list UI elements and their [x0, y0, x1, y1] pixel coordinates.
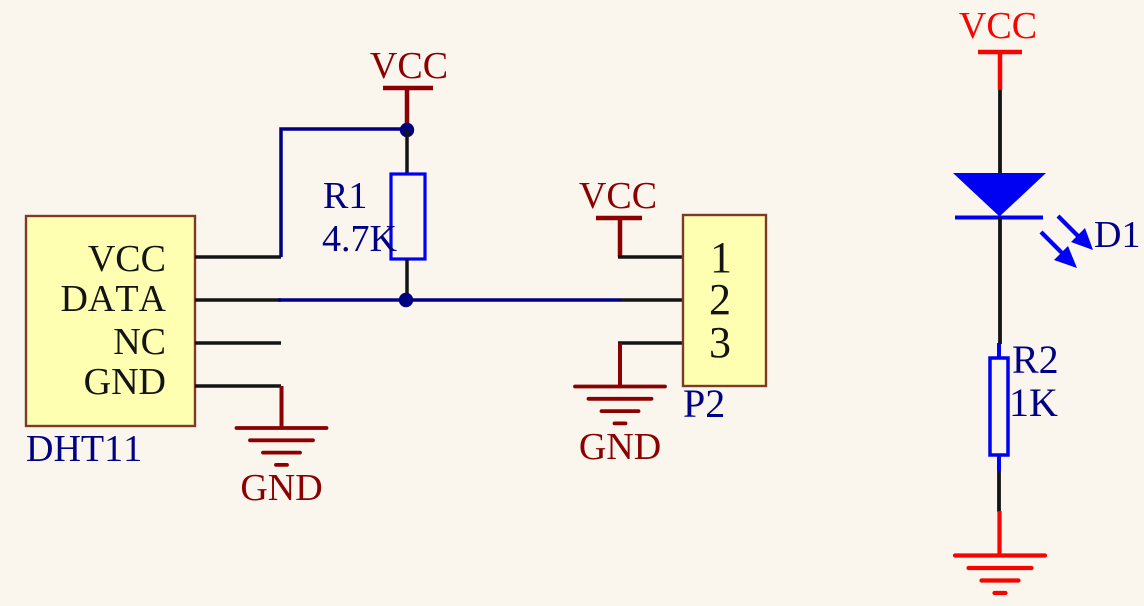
junction on DATA net	[399, 293, 413, 307]
wire P2 pin 2 stub	[621, 298, 684, 302]
connector P2 body	[683, 215, 766, 386]
ground symbol GND at P2	[575, 387, 665, 424]
LED D1 cathode bar	[955, 216, 1043, 220]
wire R2 to ground	[997, 471, 1001, 512]
svg-text:DATA: DATA	[60, 278, 166, 320]
svg-text:VCC: VCC	[88, 238, 166, 280]
ground symbol GND at DHT11	[237, 428, 327, 465]
resistor R2 top stub	[997, 343, 1001, 359]
svg-text:VCC: VCC	[370, 45, 448, 87]
junction at R1 top	[400, 123, 414, 137]
LED light arrow 2	[1041, 232, 1077, 268]
wire red ground drop	[997, 511, 1001, 556]
wire R1 top stub	[405, 130, 409, 175]
svg-text:4.7K: 4.7K	[322, 218, 398, 260]
pin 1 VCC of DHT11	[195, 255, 281, 259]
wire R1 bottom stub	[405, 259, 409, 300]
wire VCC to LED anode	[998, 90, 1002, 174]
svg-text:R2: R2	[1012, 337, 1059, 382]
svg-text:1K: 1K	[1009, 380, 1058, 425]
wire LED cathode to R2	[998, 217, 1002, 344]
svg-text:VCC: VCC	[959, 5, 1037, 47]
svg-text:P2: P2	[683, 381, 725, 426]
svg-text:GND: GND	[240, 467, 322, 509]
svg-text:D1: D1	[1094, 214, 1140, 256]
power symbol VCC at P2	[596, 218, 642, 257]
power symbol VCC at LED (red)	[978, 52, 1022, 90]
ground symbol (red) below R2	[955, 556, 1045, 594]
pin 3 NC of DHT11	[195, 341, 281, 345]
LED light arrow 1	[1058, 216, 1093, 250]
wire DATA net (navy)	[278, 298, 621, 302]
LED D1 triangle	[953, 173, 1046, 217]
wire VCC net from DHT11 pin up to R1 top junction	[281, 129, 407, 257]
resistor R1	[391, 174, 425, 259]
svg-text:3: 3	[709, 318, 731, 367]
wire P2 pin 1	[618, 255, 684, 259]
pin 2 DATA of DHT11	[195, 298, 281, 302]
resistor R2	[990, 358, 1008, 455]
pin 4 GND of DHT11	[195, 384, 281, 388]
svg-text:VCC: VCC	[579, 175, 657, 217]
wire GND drop from DHT11 GND pin	[280, 386, 284, 428]
svg-text:R1: R1	[323, 175, 367, 217]
svg-text:2: 2	[709, 275, 731, 324]
resistor R2 bottom stub	[997, 455, 1001, 471]
wire GND drop from P2 pin 3	[618, 343, 622, 387]
svg-text:GND: GND	[579, 426, 661, 468]
part U1 DHT11 body	[26, 216, 195, 426]
wire P2 pin 3	[618, 341, 684, 345]
svg-text:NC: NC	[113, 321, 166, 363]
svg-text:GND: GND	[84, 361, 166, 403]
svg-text:DHT11: DHT11	[26, 428, 142, 470]
power symbol VCC at R1	[383, 88, 433, 126]
